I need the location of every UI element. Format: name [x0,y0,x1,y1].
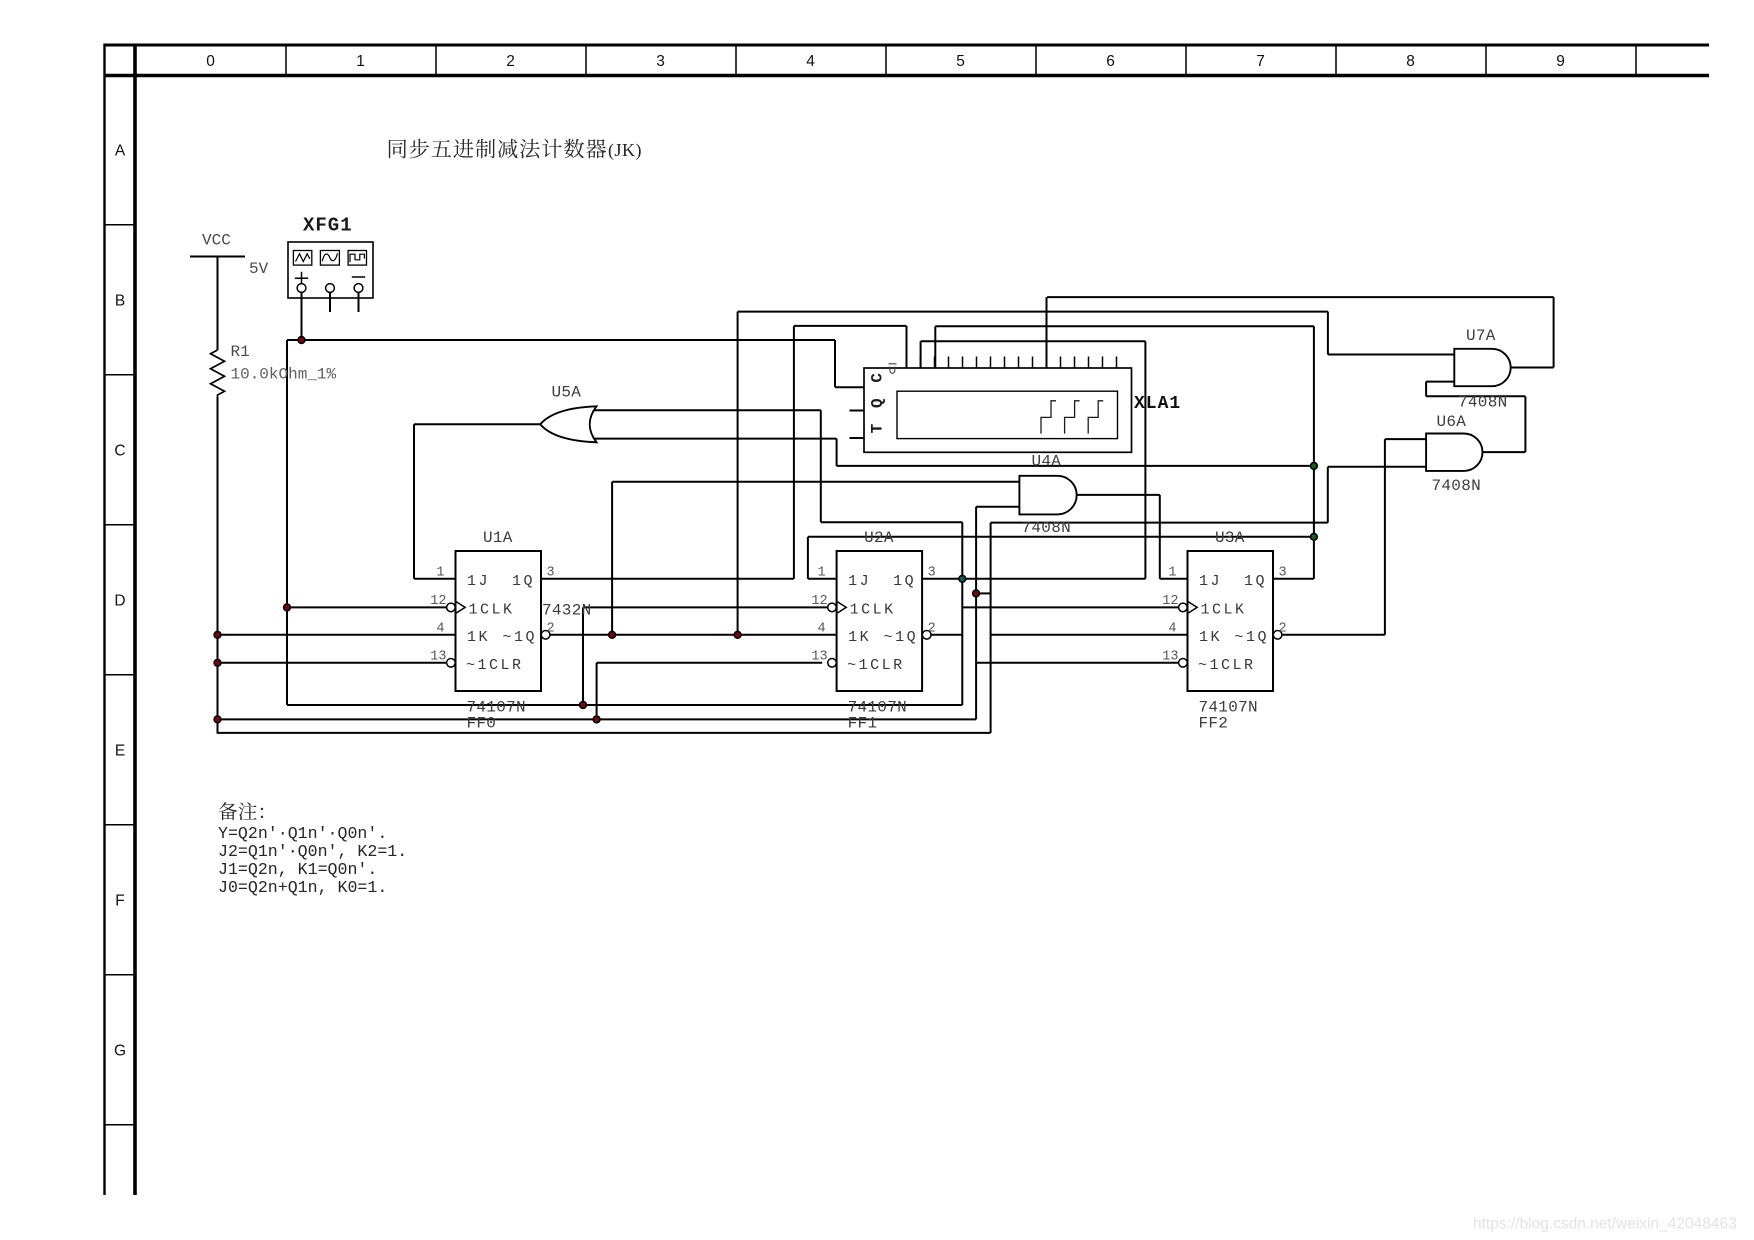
svg-text:0: 0 [206,53,215,70]
svg-text:3: 3 [547,566,555,581]
svg-text:2: 2 [506,53,515,70]
svg-text:FF0: FF0 [467,715,497,733]
svg-text:12: 12 [811,594,827,609]
svg-text:U7A: U7A [1466,327,1496,345]
svg-text:J2=Q1n'·Q0n', K2=1.: J2=Q1n'·Q0n', K2=1. [218,842,407,861]
svg-text:XFG1: XFG1 [303,215,353,237]
svg-text:J1=Q2n, K1=Q0n'.: J1=Q2n, K1=Q0n'. [218,860,377,879]
svg-text:E: E [115,743,125,760]
svg-text:2: 2 [1279,622,1287,637]
svg-text:1: 1 [817,566,825,581]
svg-text:VCC: VCC [202,232,231,250]
svg-text:7408N: 7408N [1022,519,1072,537]
svg-text:~1Q: ~1Q [1235,629,1270,646]
svg-text:1: 1 [436,566,444,581]
svg-text:7408N: 7408N [1432,477,1482,495]
svg-text:1CLK: 1CLK [1201,602,1247,619]
svg-text:T: T [869,423,887,433]
svg-text:1CLK: 1CLK [850,602,896,619]
svg-text:1K: 1K [848,629,871,646]
svg-text:~1Q: ~1Q [503,629,538,646]
svg-text:B: B [115,293,125,310]
svg-text:1: 1 [356,53,365,70]
svg-text:~1Q: ~1Q [884,629,919,646]
svg-text:1K: 1K [467,629,490,646]
svg-text:U3A: U3A [1215,529,1245,547]
svg-text:5: 5 [956,53,965,70]
svg-text:7408N: 7408N [1458,394,1508,412]
svg-text:J0=Q2n+Q1n, K0=1.: J0=Q2n+Q1n, K0=1. [218,878,387,897]
svg-text:FF1: FF1 [848,715,878,733]
svg-text:~1CLR: ~1CLR [847,657,905,674]
svg-text:6: 6 [1106,53,1115,70]
svg-text:U6A: U6A [1437,413,1467,431]
svg-text:5V: 5V [249,260,269,278]
svg-text:C: C [114,443,125,460]
svg-text:4: 4 [817,622,825,637]
svg-text:1K: 1K [1199,629,1222,646]
svg-text:(JK): (JK) [608,140,642,161]
svg-text:4: 4 [806,53,815,70]
svg-text:F: F [115,893,124,910]
svg-text:7: 7 [1256,53,1265,70]
svg-text:Q: Q [869,398,887,408]
svg-text:1Q: 1Q [1244,573,1267,590]
svg-text:2: 2 [928,622,936,637]
svg-text:U2A: U2A [864,529,894,547]
svg-text:C: C [869,373,887,383]
svg-text:1J: 1J [1199,573,1222,590]
svg-text:4: 4 [436,622,444,637]
svg-text:~1CLR: ~1CLR [1198,657,1256,674]
svg-text:U1A: U1A [483,529,513,547]
svg-text:8: 8 [1406,53,1415,70]
svg-text:G: G [114,1043,126,1060]
svg-text:1Q: 1Q [512,573,535,590]
svg-text:13: 13 [811,650,827,665]
svg-text:9: 9 [1556,53,1565,70]
svg-text:1: 1 [1168,566,1176,581]
svg-text:FF2: FF2 [1199,715,1229,733]
svg-text:~1CLR: ~1CLR [466,657,524,674]
svg-text:1J: 1J [848,573,871,590]
svg-text:3: 3 [1279,566,1287,581]
svg-text:13: 13 [1162,650,1178,665]
svg-text:1Q: 1Q [893,573,916,590]
svg-text:XLA1: XLA1 [1134,394,1181,414]
svg-text:3: 3 [656,53,665,70]
svg-text:7432N: 7432N [542,602,592,620]
svg-text:12: 12 [430,594,446,609]
svg-text:D: D [114,593,125,610]
svg-text:10.0kOhm_1%: 10.0kOhm_1% [231,366,337,384]
svg-text:2: 2 [547,622,555,637]
svg-text:12: 12 [1162,594,1178,609]
svg-text:R1: R1 [231,343,250,361]
svg-text:3: 3 [928,566,936,581]
svg-text:https://blog.csdn.net/weixin_4: https://blog.csdn.net/weixin_42048463 [1473,1216,1737,1233]
svg-text:U5A: U5A [552,384,582,402]
svg-text:U4A: U4A [1032,453,1062,471]
svg-text:13: 13 [430,650,446,665]
svg-text:Y=Q2n'·Q1n'·Q0n'.: Y=Q2n'·Q1n'·Q0n'. [218,824,387,843]
svg-text:1CLK: 1CLK [469,602,515,619]
svg-text:4: 4 [1168,622,1176,637]
svg-text:A: A [115,143,126,160]
svg-text:1J: 1J [467,573,490,590]
